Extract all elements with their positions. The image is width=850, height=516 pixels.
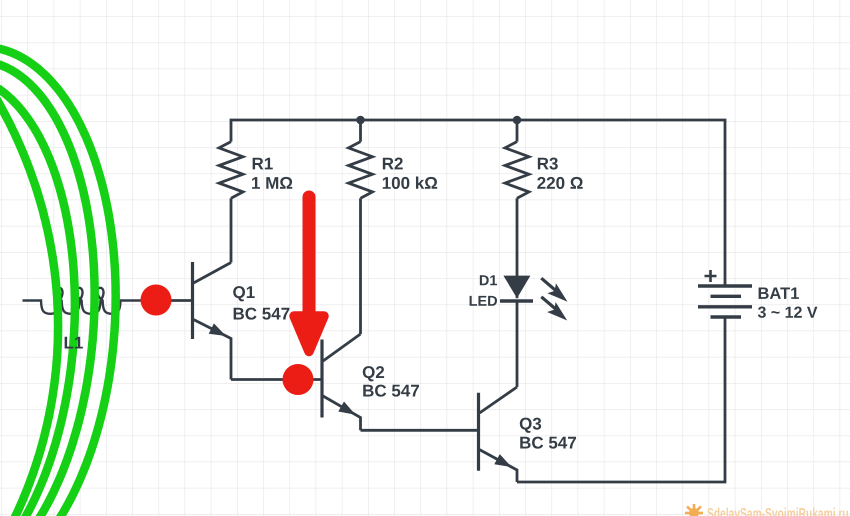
Q2 emitter arrow: [338, 402, 355, 415]
label LED: [470, 296, 497, 306]
wire: Q2 emitter to Q3 base: [361, 429, 478, 432]
battery BAT1 plates: [698, 284, 752, 287]
node dot (red) at Q2 base: [283, 364, 314, 395]
Q1 emitter: [194, 320, 232, 380]
value 3 ~ 12 V: [758, 307, 818, 318]
resistor R1: [219, 142, 243, 199]
label BAT1: [759, 288, 799, 299]
value BC 547 (Q3): [520, 437, 576, 449]
label L1: [65, 337, 83, 349]
inductor L1: [23, 288, 142, 314]
coil antenna loop turn 1: [0, 53, 58, 516]
label Q3: [520, 418, 541, 433]
Q3 emitter arrow: [494, 454, 511, 467]
transistor Q1 base bar: [191, 262, 194, 339]
wire: coil to Q1 base: [141, 299, 191, 302]
Q1 emitter arrow: [209, 323, 226, 336]
value BC 547 (Q2): [363, 385, 419, 397]
value BC 547 (Q1): [234, 308, 290, 320]
Q2 emitter: [323, 396, 361, 430]
watermark text: [707, 508, 848, 516]
label D1: [480, 275, 497, 285]
label R3: [538, 158, 558, 170]
red annotation arrow: [303, 197, 316, 322]
transistor Q2 base bar: [320, 340, 323, 418]
Q3 collector: [480, 387, 518, 413]
value 100 kΩ: [383, 176, 437, 188]
wire: R2 bottom to Q2 collector: [359, 198, 362, 334]
coil antenna loop turn 2: [0, 76, 75, 516]
value 1 MΩ: [252, 177, 292, 189]
label Q1: [233, 286, 255, 301]
wire: R3 bottom to LED anode: [516, 198, 519, 275]
LED light arrow 2: [541, 297, 555, 309]
coil antenna loop turn 4: [0, 47, 116, 516]
junction node at R2 top: [356, 116, 365, 125]
Q2 collector: [323, 334, 361, 361]
wire: R1 bottom to Q1 collector: [230, 198, 233, 262]
top supply rail wire: [231, 120, 725, 286]
wire: Q1 emitter to Q2 base: [231, 378, 321, 381]
Q1 collector: [194, 263, 232, 284]
value 220 Ω: [537, 177, 582, 189]
transistor Q3 base bar: [477, 393, 480, 471]
wire: bottom rail Q3 emitter to battery minus: [517, 317, 725, 482]
wire: LED cathode to Q3 collector: [516, 301, 519, 387]
coil antenna loop turn 3: [0, 61, 95, 516]
LED D1 triangle: [503, 276, 530, 299]
battery plus sign: [705, 270, 717, 282]
node dot (red) at coil output: [141, 285, 172, 316]
resistor R3: [516, 120, 519, 142]
LED D1 cathode bar: [500, 299, 533, 302]
Q3 emitter: [480, 450, 518, 482]
LED light arrow 1: [541, 278, 555, 290]
resistor R2: [359, 120, 362, 142]
label R1: [253, 158, 273, 170]
label Q2: [363, 366, 384, 381]
junction node at R3 top: [513, 116, 522, 125]
watermark sun icon: [685, 504, 703, 516]
label R2: [383, 158, 403, 170]
